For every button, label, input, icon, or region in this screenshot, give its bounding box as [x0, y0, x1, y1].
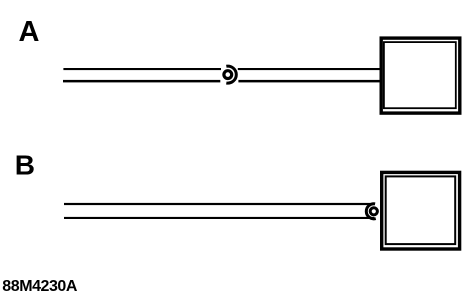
svg-text:A: A [19, 16, 40, 48]
svg-text:B: B [15, 149, 35, 180]
svg-text:88M4230A: 88M4230A [2, 278, 78, 295]
